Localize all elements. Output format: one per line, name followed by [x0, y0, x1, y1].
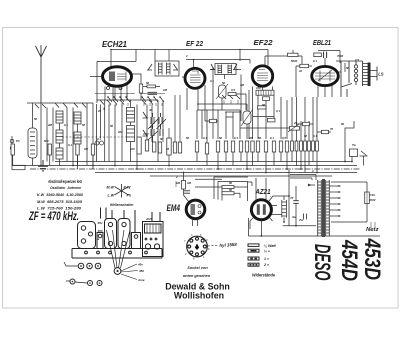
svg-text:7000: 7000: [337, 54, 344, 58]
svg-text:0,5: 0,5: [231, 88, 235, 92]
svg-text:0,5: 0,5: [355, 58, 359, 62]
svg-text:50: 50: [229, 188, 233, 192]
svg-text:45v: 45v: [97, 221, 103, 225]
svg-text:10: 10: [299, 69, 303, 73]
svg-text:500: 500: [44, 139, 49, 143]
svg-text:50: 50: [186, 136, 190, 140]
svg-text:Wollishofen: Wollishofen: [174, 291, 224, 301]
svg-text:70: 70: [330, 127, 334, 131]
svg-text:0,1: 0,1: [97, 137, 101, 141]
svg-text:½ »: ½ »: [264, 249, 270, 253]
svg-text:1M: 1M: [84, 147, 89, 151]
svg-text:0,1: 0,1: [313, 59, 317, 63]
svg-text:45v: 45v: [137, 263, 143, 267]
svg-text:0,1: 0,1: [210, 79, 214, 83]
svg-text:Netz: Netz: [366, 227, 379, 233]
svg-text:2: 2: [175, 175, 178, 179]
svg-text:1M: 1M: [163, 88, 168, 92]
svg-text:0,1: 0,1: [276, 109, 280, 113]
svg-text:ZF = 470 kHz.: ZF = 470 kHz.: [28, 209, 79, 223]
svg-text:2M: 2M: [47, 123, 53, 127]
svg-text:50: 50: [34, 117, 38, 121]
svg-text:7w: 7w: [299, 218, 304, 222]
svg-text:200: 200: [117, 130, 123, 134]
svg-text:50: 50: [262, 103, 266, 107]
svg-text:50: 50: [258, 136, 262, 140]
svg-text:50: 50: [304, 134, 308, 138]
svg-text:15: 15: [150, 125, 154, 129]
svg-text:K.W 5360-5840 4,30-2500: K.W 5360-5840 4,30-2500: [37, 192, 84, 197]
svg-text:25: 25: [97, 109, 102, 113]
svg-text:EF 22: EF 22: [186, 39, 204, 48]
svg-text:1M: 1M: [187, 181, 192, 185]
svg-text:50: 50: [82, 123, 86, 127]
svg-text:0,1: 0,1: [64, 123, 68, 127]
svg-text:2: 2: [185, 54, 188, 58]
svg-text:unten gesehen: unten gesehen: [183, 273, 211, 278]
svg-text:0,5A: 0,5A: [369, 193, 375, 197]
svg-text:150: 150: [256, 86, 261, 90]
svg-text:50: 50: [160, 137, 164, 141]
svg-text:450: 450: [97, 229, 103, 233]
svg-text:3w: 3w: [292, 215, 297, 219]
svg-text:Widerstände: Widerstände: [252, 273, 275, 279]
svg-text:450: 450: [138, 269, 144, 273]
svg-text:EF22: EF22: [254, 38, 274, 47]
svg-text:2 »: 2 »: [263, 263, 269, 267]
svg-text:Oszillator Antenne: Oszillator Antenne: [50, 185, 82, 190]
svg-text:2M: 2M: [248, 136, 254, 140]
svg-text:M.W 985-2075 515-1605: M.W 985-2075 515-1605: [37, 199, 83, 204]
svg-text:1M: 1M: [240, 83, 245, 87]
svg-text:50: 50: [219, 136, 223, 140]
svg-text:Sockel von: Sockel von: [187, 265, 208, 270]
svg-text:Ph: Ph: [16, 139, 20, 143]
svg-text:Ame: Ame: [137, 278, 145, 282]
svg-text:1 »: 1 »: [264, 257, 269, 261]
svg-text:Wellenschalter: Wellenschalter: [110, 202, 134, 207]
svg-text:0,1: 0,1: [68, 143, 72, 147]
svg-text:AUS: AUS: [145, 217, 152, 221]
svg-text:0,1: 0,1: [313, 134, 317, 138]
svg-text:K.W: K.W: [124, 186, 132, 190]
svg-text:ECH21: ECH21: [102, 40, 128, 49]
svg-text:3-30: 3-30: [143, 132, 149, 136]
svg-text:454D: 454D: [337, 239, 362, 281]
svg-text:50: 50: [229, 181, 233, 185]
svg-text:50: 50: [222, 81, 226, 85]
svg-text:47: 47: [289, 196, 294, 200]
svg-text:L.W: L.W: [108, 194, 115, 198]
svg-text:¼ Watt: ¼ Watt: [264, 244, 277, 248]
svg-text:EM4: EM4: [167, 203, 181, 213]
svg-text:0,3: 0,3: [234, 136, 238, 140]
svg-text:0,1: 0,1: [270, 136, 274, 140]
svg-text:M.W: M.W: [107, 186, 115, 190]
svg-text:Abstimmfrequenzen kHz: Abstimmfrequenzen kHz: [47, 179, 82, 184]
svg-text:5000: 5000: [291, 59, 298, 63]
svg-text:80: 80: [341, 122, 345, 126]
svg-text:50: 50: [110, 124, 114, 128]
svg-text:220V: 220V: [368, 198, 377, 202]
svg-text:4: 4: [311, 169, 314, 173]
svg-text:0,1: 0,1: [203, 136, 207, 140]
svg-text:0,5: 0,5: [282, 136, 286, 140]
svg-text:EBL21: EBL21: [313, 38, 331, 47]
svg-text:Ph: Ph: [127, 194, 132, 198]
svg-text:DESO: DESO: [310, 244, 335, 281]
svg-text:100: 100: [130, 147, 135, 151]
svg-text:25: 25: [165, 147, 170, 151]
svg-text:1M: 1M: [176, 181, 181, 185]
svg-text:LS: LS: [378, 72, 384, 77]
svg-text:50: 50: [146, 81, 150, 85]
svg-text:AZ21: AZ21: [255, 189, 271, 196]
svg-text:50: 50: [346, 66, 350, 70]
svg-text:25: 25: [293, 121, 298, 125]
svg-text:453D: 453D: [360, 238, 385, 280]
svg-text:30: 30: [149, 108, 153, 112]
